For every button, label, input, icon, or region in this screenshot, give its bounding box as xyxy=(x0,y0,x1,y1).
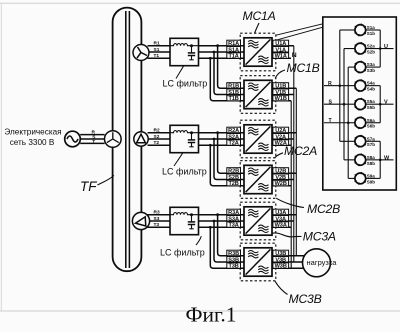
svg-text:S6a: S6a xyxy=(367,118,376,123)
svg-text:S2b: S2b xyxy=(367,49,376,54)
svg-text:S3b: S3b xyxy=(367,68,376,73)
svg-text:S1: S1 xyxy=(154,47,160,53)
svg-text:MC3B: MC3B xyxy=(289,292,322,306)
svg-text:S4a: S4a xyxy=(367,81,376,86)
svg-text:T2B: T2B xyxy=(228,181,238,187)
svg-text:T3B: T3B xyxy=(228,264,238,270)
svg-text:R: R xyxy=(328,81,332,87)
svg-text:T3A: T3A xyxy=(228,223,238,229)
svg-text:MC1A: MC1A xyxy=(243,9,276,23)
svg-text:W1A: W1A xyxy=(275,54,287,60)
svg-text:S1a: S1a xyxy=(367,25,376,30)
svg-text:MC3A: MC3A xyxy=(303,230,336,244)
svg-text:T1: T1 xyxy=(154,53,160,59)
svg-text:LC фильтр: LC фильтр xyxy=(162,167,207,177)
svg-text:S9b: S9b xyxy=(367,179,376,184)
svg-text:T3: T3 xyxy=(154,222,160,228)
svg-text:S5b: S5b xyxy=(367,105,376,110)
svg-text:S5a: S5a xyxy=(367,99,376,104)
svg-text:нагрузка: нагрузка xyxy=(307,258,338,267)
svg-text:S7a: S7a xyxy=(367,136,376,141)
svg-text:S4b: S4b xyxy=(367,87,376,92)
svg-text:TF: TF xyxy=(80,179,97,194)
svg-text:S8a: S8a xyxy=(367,155,376,160)
svg-text:S9a: S9a xyxy=(367,173,376,178)
svg-text:MC2A: MC2A xyxy=(284,144,317,158)
svg-text:W1B: W1B xyxy=(275,96,287,102)
svg-text:MC1B: MC1B xyxy=(287,61,320,75)
svg-text:W3A: W3A xyxy=(275,223,287,229)
svg-text:W: W xyxy=(384,155,390,161)
svg-text:R3: R3 xyxy=(154,210,160,216)
svg-text:V: V xyxy=(384,100,388,106)
svg-text:T1B: T1B xyxy=(228,96,238,102)
svg-text:S6b: S6b xyxy=(367,124,376,129)
svg-text:сеть 3300 В: сеть 3300 В xyxy=(10,138,55,147)
svg-text:U: U xyxy=(384,44,388,50)
svg-text:LC фильтр: LC фильтр xyxy=(160,248,205,258)
svg-text:W3B: W3B xyxy=(275,264,287,270)
svg-text:S3a: S3a xyxy=(367,62,376,67)
svg-text:T2: T2 xyxy=(154,140,160,146)
svg-text:S3: S3 xyxy=(154,216,160,222)
svg-text:S: S xyxy=(329,99,333,105)
svg-text:Фиг.1: Фиг.1 xyxy=(186,303,237,327)
svg-text:LC фильтр: LC фильтр xyxy=(163,79,208,89)
svg-text:MC2B: MC2B xyxy=(307,202,340,216)
svg-text:R2: R2 xyxy=(154,128,160,134)
svg-text:S2a: S2a xyxy=(367,44,376,49)
svg-text:T: T xyxy=(92,139,95,145)
svg-text:Электрическая: Электрическая xyxy=(4,128,61,137)
svg-text:S2: S2 xyxy=(154,134,160,140)
svg-text:N: N xyxy=(292,52,297,59)
svg-text:S8b: S8b xyxy=(367,161,376,166)
svg-text:S1b: S1b xyxy=(367,31,376,36)
svg-text:S7b: S7b xyxy=(367,142,376,147)
svg-text:R1: R1 xyxy=(154,41,160,47)
svg-text:T1A: T1A xyxy=(228,54,238,60)
svg-text:T2A: T2A xyxy=(228,141,238,147)
svg-text:W2B: W2B xyxy=(275,181,287,187)
